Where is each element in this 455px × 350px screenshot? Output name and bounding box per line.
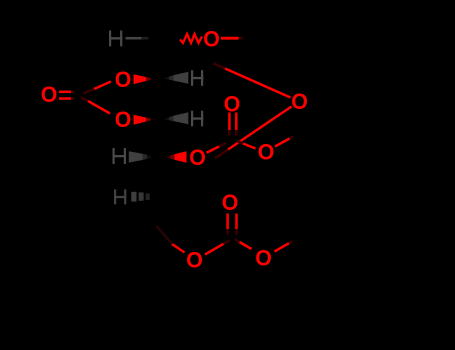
svg-text:O: O	[115, 66, 132, 91]
svg-text:O: O	[222, 189, 239, 214]
svg-text:O: O	[41, 82, 58, 107]
svg-text:O: O	[258, 139, 275, 164]
svg-text:O: O	[189, 144, 206, 169]
svg-text:O: O	[224, 91, 241, 116]
svg-text:O: O	[186, 247, 203, 272]
svg-text:O: O	[291, 88, 308, 113]
svg-text:O: O	[203, 26, 220, 51]
svg-text:O: O	[255, 245, 272, 270]
svg-text:O: O	[115, 106, 132, 131]
